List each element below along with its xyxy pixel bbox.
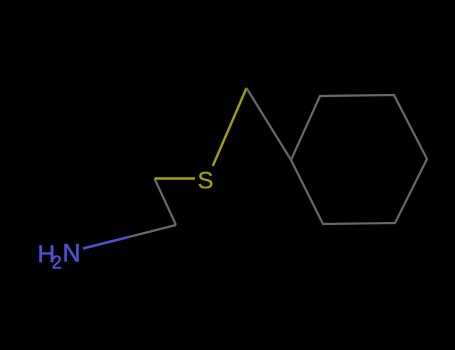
svg-text:S: S: [198, 168, 214, 195]
svg-text:N: N: [63, 240, 81, 268]
svg-text:2: 2: [52, 253, 62, 273]
atom label H2N (amine group, blue): [38, 240, 81, 273]
bond N-C1 (blue half near N): [83, 237, 130, 249]
bond C1-C2 (carbon-carbon): [155, 179, 177, 226]
cyclohexane ring (hexagon): [291, 95, 427, 224]
bond S-CH2 (olive): [213, 88, 247, 166]
bond C2-S (olive): [155, 177, 196, 179]
bond CH2-ring ipso carbon: [247, 88, 292, 160]
bond N-C1 (carbon half): [130, 225, 177, 237]
